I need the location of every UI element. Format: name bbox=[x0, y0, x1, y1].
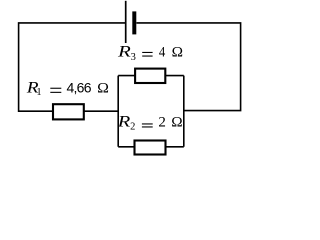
svg-text:4,66: 4,66 bbox=[67, 79, 92, 95]
svg-text:R: R bbox=[116, 114, 131, 131]
svg-text:R: R bbox=[117, 44, 132, 61]
svg-text:3: 3 bbox=[131, 52, 136, 63]
svg-text:4: 4 bbox=[159, 45, 166, 61]
svg-text:Ω: Ω bbox=[97, 80, 109, 96]
svg-text:Ω: Ω bbox=[171, 115, 182, 131]
svg-text:1: 1 bbox=[36, 87, 41, 98]
svg-text:2: 2 bbox=[130, 122, 135, 133]
svg-text:2: 2 bbox=[158, 115, 166, 131]
svg-text:Ω: Ω bbox=[172, 45, 183, 61]
